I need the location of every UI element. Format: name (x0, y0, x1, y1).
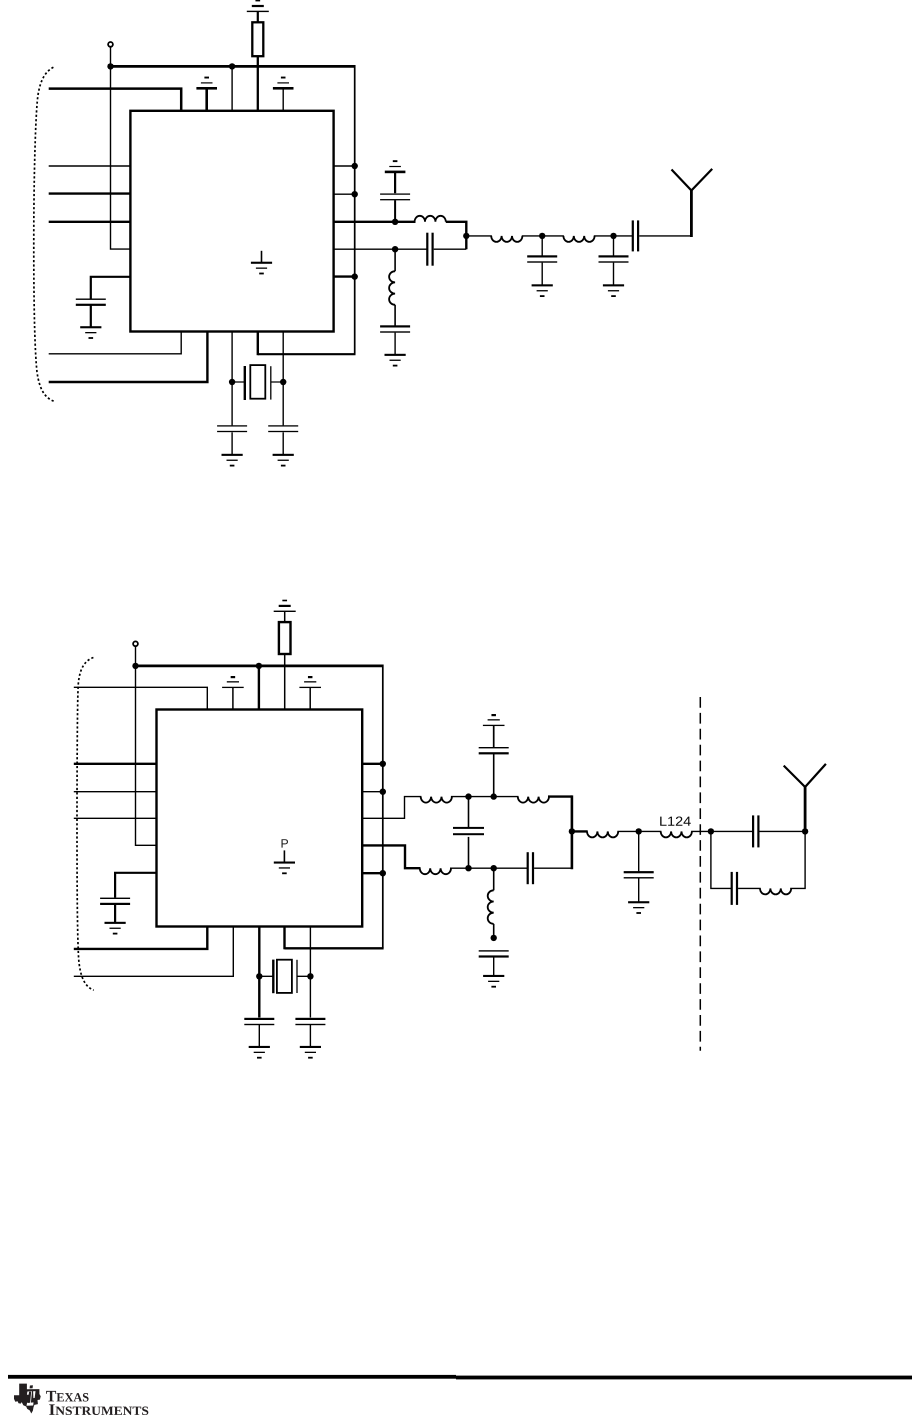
wire (74, 927, 234, 977)
capacitor C4 (series) (426, 233, 434, 266)
brace (signal bundle, top circuit) (34, 67, 54, 401)
wire (258, 666, 260, 710)
wire (394, 172, 396, 193)
inductor L1 (415, 216, 446, 222)
Texas Instruments logo (14, 1384, 41, 1414)
ground (532, 284, 553, 297)
wire (111, 47, 131, 249)
wire (RF out) (334, 221, 416, 223)
capacitor C1 (decoupling) (76, 299, 106, 306)
wire (309, 1025, 311, 1047)
wire (285, 947, 384, 949)
capacitor C9 (series) (632, 220, 640, 251)
supply VDD (222, 676, 244, 688)
resistor R1 (bias) (252, 22, 263, 56)
wire (VDD rail right) (382, 665, 384, 949)
wire (282, 332, 284, 426)
capacitor C15 (479, 747, 509, 754)
wire (digital input) (74, 791, 157, 793)
wire (493, 754, 495, 797)
supply VDD (247, 0, 269, 12)
capacitor C3 (crystal load) (268, 425, 298, 432)
wire (450, 867, 528, 869)
capacitor C13 (series, balun) (527, 852, 535, 884)
wire (493, 725, 495, 747)
ground (249, 1046, 270, 1059)
ground (273, 454, 294, 467)
wire (639, 235, 691, 237)
wire (231, 332, 233, 426)
resistor R2 (bias) (279, 622, 291, 654)
capacitor C18 (series) (752, 815, 760, 847)
wire (digital input) (74, 763, 157, 765)
wire (283, 927, 285, 950)
junction (491, 935, 497, 941)
wire (534, 867, 572, 869)
wire (114, 905, 116, 923)
wire (digital input) (74, 817, 157, 819)
capacitor C14 (balun middle) (468, 797, 470, 828)
wire (548, 795, 572, 797)
footer rule (8, 1375, 456, 1379)
wire (136, 646, 157, 845)
text INSTRUMENTS (49, 1404, 55, 1414)
wire (362, 872, 383, 874)
wire (711, 830, 753, 832)
junction (539, 233, 545, 239)
supply VDD (385, 160, 406, 173)
junction (463, 233, 469, 239)
inductor L3 (491, 236, 522, 242)
wire (309, 687, 311, 709)
wire (334, 275, 355, 277)
wire (691, 830, 711, 832)
wire (RF in) (334, 248, 428, 250)
ground (385, 354, 406, 367)
inductor L10 (760, 888, 791, 894)
wire (VDD rail right) (354, 65, 356, 354)
antenna ANT2 (804, 787, 807, 833)
wire (284, 611, 286, 622)
junction (392, 246, 398, 252)
wire (282, 432, 284, 454)
wire (434, 248, 467, 250)
junction (392, 219, 398, 225)
capacitor C12 (crystal load) (295, 1018, 325, 1025)
wire (394, 333, 396, 355)
junction (380, 789, 386, 795)
IC U2 (transceiver, bottom circuit) (157, 710, 363, 927)
wire (258, 1025, 260, 1047)
junction (380, 870, 386, 876)
inductor L8 (shunt, balun) (493, 868, 495, 890)
junction (802, 828, 808, 834)
wire (790, 831, 805, 888)
supply VDD (483, 714, 505, 726)
ground (628, 901, 649, 914)
inductor L124 (661, 831, 692, 837)
wire (RF- to balun) (362, 845, 420, 868)
ground (80, 326, 101, 339)
terminal (supply input, top circuit) (108, 42, 113, 47)
wire (617, 830, 661, 832)
wire (digital input, top) (74, 687, 208, 709)
wire (594, 235, 633, 237)
terminal (supply input, bottom circuit) (133, 641, 138, 646)
inductor L5 (balun) (421, 797, 452, 803)
wire (362, 791, 383, 793)
wire (257, 56, 259, 111)
brace (signal bundle, bottom circuit) (77, 658, 94, 991)
wire (90, 306, 92, 328)
text P (pad) (282, 839, 288, 847)
junction (229, 63, 235, 69)
capacitor C2 (crystal load) (217, 425, 247, 432)
inductor L6 (balun) (518, 797, 549, 803)
wire (49, 332, 208, 383)
wire (digital input) (49, 192, 131, 194)
wire (RF+ to balun) (362, 797, 421, 819)
junction (307, 973, 313, 979)
wire (258, 927, 260, 1018)
wire (466, 235, 492, 237)
wire (493, 957, 495, 975)
supply VDD (274, 600, 296, 612)
wire (258, 353, 356, 355)
wire (334, 193, 355, 195)
capacitor C17 (638, 831, 640, 871)
wire (362, 763, 383, 765)
wire (638, 878, 640, 901)
supply VDD (196, 77, 217, 90)
text TEXAS (46, 1391, 56, 1401)
ground (exposed pad, inside IC) (261, 251, 263, 262)
crystal Y1 (232, 365, 283, 400)
inductor L7 (balun) (420, 868, 451, 874)
junction (132, 663, 138, 669)
inductor L4 (563, 236, 594, 242)
wire (digital input) (49, 165, 131, 167)
wire (257, 11, 259, 22)
wire (balun output bar) (571, 795, 574, 869)
junction (352, 191, 358, 197)
junction (465, 865, 471, 871)
capacitor C11 (crystal load) (244, 1018, 274, 1025)
supply VDD (299, 676, 321, 688)
IC U1 (transceiver, top circuit) (130, 111, 333, 332)
ground (483, 975, 504, 988)
wire (451, 796, 519, 798)
junction (352, 273, 358, 279)
capacitor C19 (series) (731, 872, 739, 905)
wire (232, 687, 234, 709)
wire (205, 88, 208, 111)
wire (760, 830, 806, 832)
capacitor C6 (380, 325, 410, 332)
junction (352, 163, 358, 169)
capacitor C7 (541, 236, 543, 256)
capacitor C16 (479, 950, 509, 957)
wire (334, 165, 355, 167)
wire (49, 332, 182, 354)
wire (282, 88, 284, 111)
ground (603, 284, 624, 297)
supply VDD (273, 77, 294, 90)
wire (309, 927, 311, 1018)
antenna ANT1 (690, 191, 693, 238)
wire (231, 432, 233, 454)
wire (257, 332, 259, 356)
junction (280, 379, 286, 385)
junction (107, 63, 113, 69)
junction (610, 233, 616, 239)
capacitor C10 (decoupling) (100, 898, 130, 905)
junction (256, 973, 262, 979)
ground (105, 922, 126, 935)
wire (digital input) (49, 221, 131, 223)
inductor L2 (shunt) (394, 249, 396, 271)
wire (91, 277, 131, 299)
capacitor C5 (380, 193, 410, 200)
ground (300, 1046, 321, 1059)
wire (231, 66, 233, 110)
junction (569, 828, 575, 834)
junction (229, 379, 235, 385)
junction (708, 828, 714, 834)
wire (394, 200, 396, 222)
junction (491, 865, 497, 871)
wire (VDD bus) (136, 665, 383, 668)
junction (636, 828, 642, 834)
wire (738, 887, 761, 889)
boundary (dashed) (699, 697, 701, 1051)
junction (491, 793, 497, 799)
wire (522, 235, 564, 237)
inductor L9 (587, 831, 618, 837)
ground (222, 454, 243, 467)
capacitor C8 (613, 236, 615, 256)
wire (284, 654, 286, 710)
wire (572, 830, 588, 832)
wire (VDD bus) (111, 65, 355, 68)
ground (exposed pad, inside IC) (283, 850, 285, 862)
crystal Y2 (259, 960, 310, 994)
wire (74, 927, 208, 949)
label L124 (660, 817, 666, 826)
junction (465, 793, 471, 799)
junction (256, 663, 262, 669)
wire (115, 873, 156, 898)
wire (711, 831, 732, 888)
wire (digital input, top) (49, 89, 182, 111)
junction (380, 761, 386, 767)
wire (446, 222, 467, 249)
